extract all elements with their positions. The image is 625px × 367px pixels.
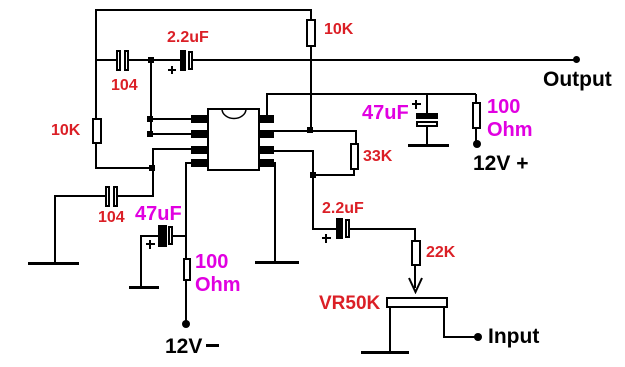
capacitor 2.2uF (bottom) plate outlined	[345, 219, 350, 238]
wire vertical node down to pin1/pin2	[150, 60, 152, 135]
capacitor 2.2uF (bottom) + plate solid	[336, 218, 343, 239]
wire pin3 vertical down	[152, 148, 154, 197]
wire pin8 vertical up	[266, 94, 268, 116]
op-amp U1 pin 1 left	[191, 115, 207, 123]
label 33K	[363, 149, 392, 165]
label Output	[543, 69, 612, 90]
wire pin7 right horizontal	[274, 130, 357, 132]
wire VR50K right leg	[443, 308, 445, 337]
plus mark 47uF right	[412, 103, 421, 105]
op-amp U1 pin 4 left	[191, 159, 207, 167]
op-amp U1 pin 3 left	[191, 146, 207, 154]
plus mark 2.2uF bottom	[322, 237, 331, 239]
wire 47uF right bottom lead	[426, 127, 428, 145]
wire VR50K left leg	[389, 308, 391, 352]
wire 10K top lower lead down to pin7 node	[310, 47, 312, 131]
ground left	[28, 262, 79, 265]
wire pin6 vertical down to 2.2uF	[312, 150, 314, 230]
label 47uF left	[135, 204, 182, 224]
wire 2.2uF bottom left lead	[313, 228, 336, 230]
wire below 10K left	[95, 144, 97, 169]
wire 2.2uF bottom right lead	[350, 228, 416, 230]
wire 104 bottom row left segment	[54, 195, 106, 197]
wire pin5 vertical to ground	[274, 162, 276, 262]
op-amp U1 pin 2 left	[191, 130, 207, 138]
label 12V+	[473, 153, 528, 174]
wire pin1 left	[150, 118, 191, 120]
capacitor 104 (bottom) plate 2	[113, 186, 118, 207]
wire pin2 left	[150, 133, 191, 135]
op-amp U1 pin 5 right	[260, 159, 274, 167]
wire left vertical to ground	[54, 196, 56, 263]
label 47uF right	[362, 103, 409, 123]
label Input	[488, 326, 539, 347]
wire to input terminal	[443, 336, 477, 338]
wire top feedback horizontal	[95, 9, 312, 11]
wire 33K bottom horizontal	[313, 174, 355, 176]
label 22K	[426, 245, 455, 261]
wire vertical down to 33K	[355, 130, 357, 144]
plus mark 47uF left	[146, 243, 155, 245]
wire 100 Ohm right bottom lead	[475, 129, 477, 141]
label 2.2uF top	[167, 30, 209, 46]
capacitor 47uF (left) plate outlined	[168, 226, 173, 245]
node output terminal dot	[573, 56, 580, 63]
plus mark 2.2uF top	[168, 69, 176, 71]
wire input row y=60 left segment	[95, 59, 118, 61]
wire pin6 right horizontal	[274, 150, 314, 152]
wire 100 Ohm right top lead	[475, 94, 477, 102]
wire below 100 Ohm left	[185, 281, 187, 321]
capacitor 47uF (right) + plate solid	[416, 113, 438, 119]
resistor 100 Ohm (right)	[472, 102, 481, 129]
node junction pin2 wire	[147, 131, 153, 137]
label 104 bottom	[98, 210, 125, 226]
wire pin4 left stub	[185, 162, 191, 164]
wire left vertical from top to R 10K left	[95, 9, 97, 118]
resistor 33K	[350, 143, 359, 170]
label VR50K	[319, 294, 380, 313]
wire 47uF right top lead	[426, 94, 428, 113]
ground 47uF left	[129, 286, 159, 289]
resistor 10K (top)	[306, 19, 316, 47]
node junction 10K-left / pin3 vertical	[149, 165, 155, 171]
op-amp U1 pin 7 right	[260, 130, 274, 138]
wire 104 bottom row right segment	[118, 195, 154, 197]
wire arrow shaft to VR50K wiper	[414, 266, 416, 288]
capacitor 104 (top) plate 2	[124, 50, 129, 71]
node input terminal dot	[474, 333, 482, 341]
wire 47uF right lead to pin4 vertical	[173, 235, 186, 237]
wire 22K top lead	[414, 228, 416, 240]
capacitor 2.2uF (top) + plate solid	[180, 50, 186, 71]
minus mark 12V-	[206, 344, 219, 347]
label 100 Ohm right	[487, 96, 533, 142]
wire between 104 and node	[129, 59, 181, 61]
capacitor 47uF (left) + plate solid	[158, 225, 167, 247]
wire supply row y=94	[266, 93, 476, 95]
label 104 top	[111, 78, 138, 94]
capacitor 104 (bottom) plate 1	[105, 186, 110, 207]
wire pin3 left	[152, 148, 191, 150]
arrow head wiper	[406, 276, 426, 294]
capacitor 47uF (right) plate outlined	[416, 121, 438, 127]
wire horizontal from 10K left to node	[95, 167, 154, 169]
node 12V+ terminal dot	[473, 140, 481, 148]
label 12V-	[165, 336, 202, 357]
wire 47uF left lead	[140, 235, 158, 237]
label 100 Ohm left	[195, 251, 241, 297]
op-amp U1 pin 6 right	[260, 146, 274, 154]
resistor 100 Ohm (left)	[183, 258, 191, 281]
ground pin5	[255, 261, 299, 264]
wire 47uF ground leg	[140, 236, 142, 287]
potentiometer VR50K body	[386, 297, 448, 308]
label 10K left	[51, 123, 80, 139]
node junction 33K / pin6	[310, 172, 316, 178]
label 2.2uF bottom	[322, 201, 364, 217]
wire 10K top upper lead	[310, 9, 312, 20]
wire below 33K	[353, 170, 355, 176]
capacitor 104 (top) plate 1	[116, 50, 121, 71]
resistor 22K	[411, 240, 421, 266]
ground VR50K	[361, 351, 409, 354]
node junction at 151,60	[148, 57, 154, 63]
capacitor 2.2uF (top) plate outlined	[188, 51, 193, 70]
node junction 10K-top / pin7 wire	[307, 127, 313, 133]
op-amp U1 pin 8 right	[260, 115, 274, 123]
op-amp U1 notch	[220, 107, 248, 120]
label 10K top	[324, 22, 353, 38]
op-amp U1 body	[207, 108, 260, 171]
ground 47uF right	[408, 144, 449, 147]
node 12V- terminal dot	[182, 320, 190, 328]
wire pin4 vertical down to 100 Ohm	[185, 162, 187, 258]
wire output line	[193, 59, 577, 61]
node junction pin1 wire	[147, 116, 153, 122]
resistor 10K (left)	[92, 118, 102, 144]
